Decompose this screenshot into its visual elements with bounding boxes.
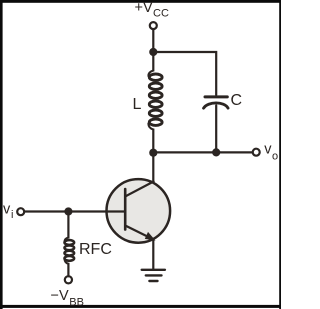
terminal +VCC bbox=[150, 22, 157, 29]
wire rail node to capacitor top bbox=[153, 52, 216, 95]
capacitor C curved plate bbox=[204, 103, 228, 108]
svg-text:L: L bbox=[133, 96, 142, 113]
inductor RFC bbox=[65, 212, 75, 277]
svg-text:+V: +V bbox=[135, 0, 153, 16]
input terminal vi bbox=[17, 208, 24, 215]
svg-text:o: o bbox=[272, 151, 278, 163]
wire base bbox=[24, 210, 125, 212]
label -VBB bbox=[51, 288, 84, 308]
label vo bbox=[264, 141, 278, 162]
node junction base/RFC bbox=[64, 207, 72, 215]
svg-text:BB: BB bbox=[69, 296, 84, 308]
svg-text:CC: CC bbox=[153, 7, 169, 19]
svg-text:−V: −V bbox=[51, 288, 69, 304]
capacitor C top plate bbox=[205, 95, 227, 98]
inductor L bbox=[148, 52, 162, 153]
terminal -VBB bbox=[65, 276, 72, 283]
svg-text:v: v bbox=[3, 202, 11, 218]
wire output line bbox=[153, 151, 252, 153]
svg-text:RFC: RFC bbox=[79, 241, 112, 258]
node junction collector/tank bbox=[149, 149, 157, 157]
svg-text:C: C bbox=[231, 92, 243, 109]
node junction VCC rail bbox=[149, 48, 157, 56]
wire capacitor bottom to output node bbox=[215, 106, 217, 153]
transistor Q1 bbox=[107, 179, 171, 243]
label +VCC bbox=[135, 0, 169, 19]
wire collector bbox=[152, 153, 154, 182]
node junction capacitor/output bbox=[212, 148, 220, 156]
output terminal vo bbox=[253, 149, 260, 156]
wire VCC terminal to rail node bbox=[152, 29, 154, 52]
svg-text:i: i bbox=[11, 209, 13, 221]
wire emitter bbox=[152, 239, 154, 270]
ground bbox=[142, 270, 165, 281]
label vi bbox=[3, 202, 13, 222]
